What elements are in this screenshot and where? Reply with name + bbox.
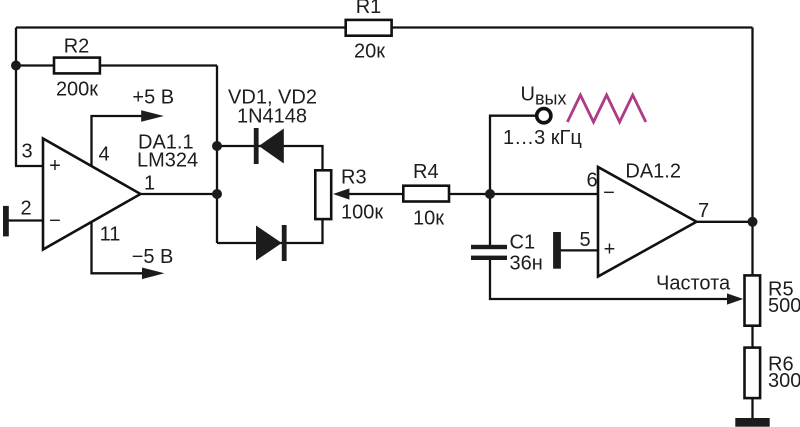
resistor R1 xyxy=(346,0,392,63)
wire mid vertical (R2 right to diode rows) xyxy=(216,66,218,244)
wire R5-R6 link xyxy=(751,325,753,348)
wire DA1.2 output xyxy=(696,221,753,223)
svg-text:5: 5 xyxy=(579,229,590,251)
wire top feedback from left vertical to right vertical xyxy=(16,26,753,28)
svg-text:3: 3 xyxy=(21,141,32,163)
op-amp DA1.2 xyxy=(598,161,697,277)
svg-text:Частота: Частота xyxy=(656,273,731,295)
power +5V arrow xyxy=(132,87,174,122)
svg-text:+: + xyxy=(604,239,616,261)
ground bottom right xyxy=(735,418,769,427)
svg-text:−5 В: −5 В xyxy=(132,246,174,268)
svg-text:100к: 100к xyxy=(341,202,383,224)
svg-text:−: − xyxy=(49,210,61,232)
svg-text:4: 4 xyxy=(98,144,109,166)
svg-text:1N4148: 1N4148 xyxy=(237,106,307,128)
svg-text:200к: 200к xyxy=(56,79,98,101)
wire R2 row xyxy=(16,64,217,66)
svg-text:Uвых: Uвых xyxy=(521,84,567,109)
resistor R2 xyxy=(54,36,100,101)
svg-text:2: 2 xyxy=(20,198,31,220)
power -5V arrow xyxy=(132,246,174,279)
svg-text:R3: R3 xyxy=(341,167,367,189)
svg-text:11: 11 xyxy=(100,224,121,246)
wire pin11 to -5V xyxy=(92,220,146,273)
svg-text:20к: 20к xyxy=(354,41,385,63)
svg-text:7: 7 xyxy=(698,200,709,222)
svg-text:300: 300 xyxy=(768,370,800,392)
ground at pin 2 xyxy=(3,206,9,237)
svg-text:1…3 кГц: 1…3 кГц xyxy=(503,127,582,149)
wire pin3 input DA1.1 xyxy=(15,165,44,167)
svg-text:R1: R1 xyxy=(356,0,382,18)
node junction R2/left vertical xyxy=(11,61,21,71)
wire node down to C1 xyxy=(489,194,491,245)
svg-text:R4: R4 xyxy=(413,161,439,183)
waveform triangle wave xyxy=(567,95,645,122)
wire R3 wiper to R4 to node to pin6 DA1.2 xyxy=(348,193,598,195)
wire pin4 to +5V xyxy=(92,116,145,167)
svg-text:C1: C1 xyxy=(510,232,536,254)
wire R6 to ground xyxy=(751,397,753,420)
resistor R4 xyxy=(403,161,449,230)
wire DA1.1 output xyxy=(139,193,217,195)
potentiometer R3 xyxy=(315,167,383,224)
op-amp DA1.1 xyxy=(43,132,198,250)
node junction DA1.1 output xyxy=(212,189,222,199)
node junction R4/C1/pin6 xyxy=(485,189,495,199)
svg-text:R2: R2 xyxy=(64,36,90,58)
node junction DA1.2 output xyxy=(748,217,758,227)
output terminal Uvyh xyxy=(503,84,582,150)
svg-text:LM324: LM324 xyxy=(137,150,198,172)
svg-text:6: 6 xyxy=(586,170,597,192)
svg-text:500: 500 xyxy=(768,295,800,317)
wire C1 bottom to R5 wiper xyxy=(490,260,728,300)
svg-text:DA1.2: DA1.2 xyxy=(625,161,681,183)
node junction VD1 row xyxy=(212,141,222,151)
potentiometer R5 xyxy=(745,275,800,325)
wire VD2 row and R3 bottom xyxy=(217,219,323,243)
ground at pin 5 xyxy=(553,232,561,269)
wire VD1 row xyxy=(217,146,323,171)
wire pin2 input DA1.1 xyxy=(8,219,44,221)
wire right vertical xyxy=(751,28,753,277)
wire left vertical xyxy=(15,28,17,167)
wire pin5 ground to DA1.2 xyxy=(560,249,598,251)
diode VD1 xyxy=(228,87,317,165)
capacitor C1 xyxy=(471,232,543,275)
svg-text:−: − xyxy=(603,182,615,204)
svg-text:1: 1 xyxy=(144,173,155,195)
svg-text:36н: 36н xyxy=(510,253,543,275)
frequency label and wiper arrow to R5 xyxy=(656,273,743,305)
diode VD2 xyxy=(256,225,287,261)
wire node up to output terminal xyxy=(490,116,535,194)
svg-text:+5 В: +5 В xyxy=(132,87,174,109)
svg-text:+: + xyxy=(49,155,61,177)
svg-text:10к: 10к xyxy=(413,208,444,230)
resistor R6 xyxy=(745,348,800,399)
